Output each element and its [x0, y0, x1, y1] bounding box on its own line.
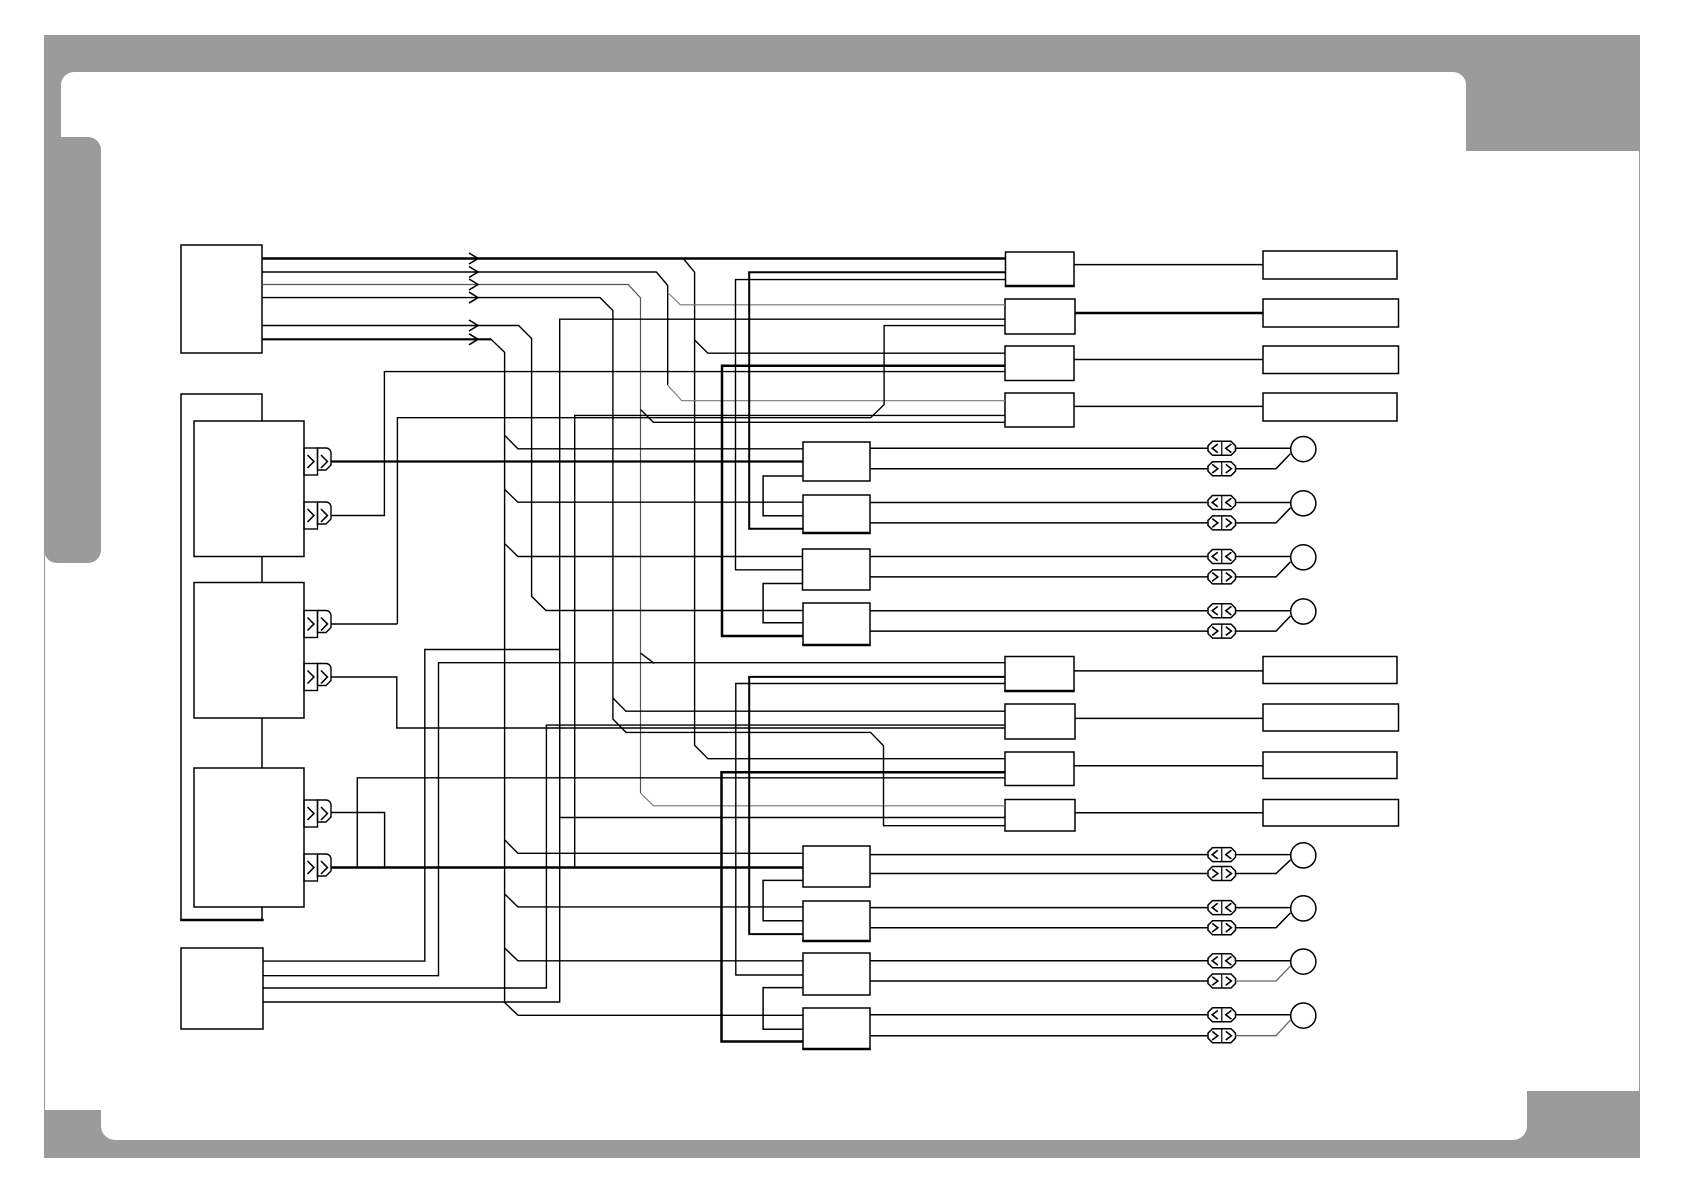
amp block A1	[803, 442, 870, 481]
terminal strip T8	[1263, 800, 1399, 827]
arrow on P1.4	[469, 292, 478, 303]
link K2 pin2 to K8 pin2	[560, 319, 1005, 817]
wire A2 out+ to plug	[870, 502, 1208, 504]
wire K5-T5	[1074, 670, 1263, 672]
wire plug P7- to speaker	[1236, 966, 1291, 981]
speaker SP7	[1291, 949, 1316, 974]
wire K7-T7	[1074, 765, 1263, 767]
wire plug P4+ to speaker	[1236, 610, 1291, 612]
plug P6+ (<<)	[1208, 901, 1236, 915]
terminal strip T5	[1263, 657, 1397, 684]
wire A8 out- to plug	[870, 1035, 1208, 1037]
wire CN1b up to K3 pin3	[332, 372, 1006, 516]
gray frame: bottom bar	[101, 1125, 1640, 1158]
branch P1.1 to K3 pin1	[695, 340, 1005, 353]
amp block A3	[803, 549, 871, 590]
rail X749 upper K1-A2	[749, 272, 1005, 529]
relay block K5	[1005, 657, 1074, 692]
relay block K4	[1005, 393, 1074, 427]
wire plug P1- to speaker	[1236, 454, 1291, 469]
branch tap 5 off bus R	[505, 894, 803, 907]
wire A4 out+ to plug	[870, 610, 1208, 612]
wire K8-T8	[1075, 812, 1263, 814]
wire P1.1 to K1 (bus L)	[262, 257, 1006, 259]
stub link S1	[763, 476, 803, 516]
arrow on P1.1	[469, 253, 478, 264]
gray frame: left thin line	[44, 137, 46, 1110]
main board outline	[181, 394, 262, 920]
plug P2- (>>)	[1208, 516, 1236, 530]
sub-board box J1	[194, 421, 304, 557]
amp block A7	[803, 953, 870, 995]
wire P2.1 up rail X424	[263, 650, 560, 962]
wire CN3a down to bus	[332, 813, 385, 868]
wire K3-T3	[1074, 359, 1263, 361]
connector CN2a on J2	[304, 611, 318, 638]
gray frame: bottom-left block	[44, 1110, 116, 1158]
wire K2-T2	[1075, 312, 1263, 314]
connector CN1a on J1	[304, 448, 318, 475]
terminal strip T4	[1263, 393, 1397, 421]
terminal strip T3	[1263, 346, 1399, 374]
gray frame: right thin line	[1639, 151, 1641, 1091]
branch tap 4 off bus R	[505, 840, 803, 854]
plug P5- (>>)	[1208, 867, 1236, 881]
wire A5 out+ to plug	[870, 854, 1208, 856]
wire CN1a to A1 (thick)	[332, 460, 804, 462]
speaker SP8	[1291, 1003, 1316, 1028]
rail X749 lower K5-A6	[749, 677, 1005, 934]
wire plug P3- to speaker	[1236, 562, 1291, 577]
rail X357 to K7 pin3	[357, 778, 1005, 868]
plug P4- (>>)	[1208, 624, 1236, 638]
speaker SP5	[1291, 843, 1316, 868]
bus G2 (thick) to K7/A8	[722, 772, 1006, 1041]
branch P1.2 to K2 pin1	[668, 293, 1005, 305]
wire plug P6- to speaker	[1236, 913, 1291, 928]
relay block K7	[1005, 752, 1074, 786]
wire P1.4 to K8 pin3	[262, 298, 1005, 826]
branch tap 1 off bus R	[505, 435, 803, 449]
relay block K6	[1005, 704, 1075, 739]
connector block P2 (bottom-left box)	[181, 948, 263, 1029]
connector CN2b on J2	[304, 664, 318, 691]
wire P1.6 segment	[262, 338, 491, 340]
wire plug P5- to speaker	[1236, 860, 1291, 874]
branch tap 6 off bus R	[505, 948, 803, 961]
speaker SP6	[1291, 896, 1316, 921]
branch P1.3 to K4 pin3	[641, 410, 1006, 423]
branch P1.1 staircase	[683, 259, 1005, 759]
wire A8 out+ to plug	[870, 1014, 1208, 1016]
wire P1.3 to K8	[262, 285, 641, 794]
arrow on P1.5	[469, 320, 478, 331]
branch P1.4 to K6 pin1	[613, 698, 1005, 711]
wire plug P8- to speaker	[1236, 1020, 1291, 1036]
wire plug P4- to speaker	[1236, 616, 1291, 631]
wire P1.2 tail	[668, 385, 1005, 401]
plug P8- (>>)	[1208, 1029, 1236, 1043]
plug P1- (>>)	[1208, 462, 1236, 476]
wire A6 out+ to plug	[870, 907, 1208, 909]
connector block P1 (top-left box)	[181, 245, 262, 353]
gray frame: bottom-right block	[1513, 1091, 1640, 1158]
connector CN3a on J3	[304, 800, 318, 827]
speaker SP4	[1291, 599, 1316, 624]
wire P1.6 bus R	[262, 339, 803, 1015]
plug P8+ (<<)	[1208, 1008, 1236, 1022]
wire plug P8+ to speaker	[1236, 1014, 1291, 1016]
wire A6 out- to plug	[870, 927, 1208, 929]
wire plug P6+ to speaker	[1236, 907, 1291, 909]
gray frame: top bar	[44, 35, 1641, 90]
plug P7- (>>)	[1208, 974, 1236, 988]
amp block A2	[803, 495, 870, 533]
wire A1 out- to plug	[870, 468, 1208, 470]
wire A4 out- to plug	[870, 630, 1208, 632]
wire CN2b to K6 pin3	[332, 677, 1006, 728]
rail X574 K4 pin2	[575, 415, 1005, 867]
plug P4+ (<<)	[1208, 604, 1236, 618]
relay block K1	[1006, 252, 1075, 286]
sub-board box J2	[194, 583, 304, 719]
wire plug P2- to speaker	[1236, 508, 1291, 523]
wire P2.2 up rail X438 to K5	[263, 663, 1005, 976]
wire A3 out- to plug	[870, 576, 1208, 578]
plug P1+ (<<)	[1208, 441, 1236, 455]
speaker SP3	[1291, 545, 1316, 570]
wire P1.2 to K4	[262, 272, 668, 385]
speaker SP1	[1291, 437, 1316, 462]
stub link S3	[763, 880, 803, 920]
wire A2 out- to plug	[870, 522, 1208, 524]
terminal strip T1	[1263, 251, 1397, 279]
bus G1 (thick) to K3/A4	[722, 366, 1005, 636]
wire A5 out- to plug	[870, 873, 1208, 875]
wire K1-T1	[1074, 264, 1263, 266]
wire P2.4 up rail X560	[263, 650, 560, 1003]
wire P1.5 to A4	[262, 326, 803, 611]
wire A7 out- to plug	[870, 980, 1208, 982]
wire CN2a to rail X397	[332, 623, 398, 625]
rail X735 upper K1-A3	[736, 280, 1006, 570]
gray frame: top-right block	[1466, 35, 1640, 151]
speaker SP2	[1291, 491, 1316, 516]
plug P3+ (<<)	[1208, 550, 1236, 564]
plug P2+ (<<)	[1208, 496, 1236, 510]
relay block K2	[1005, 299, 1075, 334]
plug P5+ (<<)	[1208, 848, 1236, 862]
branch P1.3 joins K5 pin1 net	[641, 653, 655, 663]
branch tap 2 off bus R	[505, 489, 803, 502]
wire K4-T4	[1074, 405, 1263, 407]
connector CN3b on J3	[304, 854, 318, 881]
arrow on P1.2	[469, 267, 478, 278]
wire plug P7+ to speaker	[1236, 960, 1291, 962]
wire plug P3+ to speaker	[1236, 556, 1291, 558]
plug P6- (>>)	[1208, 921, 1236, 935]
wire plug P5+ to speaker	[1236, 854, 1291, 856]
arrow on P1.3	[469, 279, 478, 290]
sub-board box J3	[194, 768, 304, 907]
wire CN3b to A5 (thick)	[332, 866, 804, 868]
connector CN1b on J1	[304, 502, 318, 529]
rail X397 upper / jog to K2 pin3	[397, 326, 1005, 624]
arrow on P1.6	[469, 334, 478, 345]
gray frame: left tab narrow	[44, 35, 61, 151]
wire P2.3 up rail X546 to K6 pin2	[263, 725, 1005, 988]
wire A3 out+ to plug	[870, 556, 1208, 558]
relay block K3	[1005, 346, 1074, 381]
amp block A5	[803, 846, 870, 887]
wire A7 out+ to plug	[870, 960, 1208, 962]
stub link S4	[763, 988, 803, 1030]
wire P1.3 tail	[641, 793, 1006, 806]
wire A1 out+ to plug	[870, 447, 1208, 449]
white page rounded corners	[61, 72, 1467, 272]
rail X735 lower K5-A7	[736, 684, 1005, 976]
plug P3- (>>)	[1208, 570, 1236, 584]
terminal strip T7	[1263, 752, 1397, 779]
wire plug P1+ to speaker	[1236, 447, 1291, 449]
stub link S2	[763, 584, 803, 623]
wire K6-T6	[1075, 717, 1263, 719]
terminal strip T6	[1263, 704, 1399, 731]
relay block K8	[1005, 800, 1075, 832]
amp block A4	[803, 603, 870, 645]
amp block A6	[803, 901, 870, 941]
branch tap 3 off bus R	[505, 544, 803, 557]
terminal strip T2	[1263, 299, 1399, 327]
amp block A8	[803, 1008, 870, 1049]
gray frame: left tab wide	[44, 137, 101, 563]
plug P7+ (<<)	[1208, 954, 1236, 968]
wire plug P2+ to speaker	[1236, 502, 1291, 504]
